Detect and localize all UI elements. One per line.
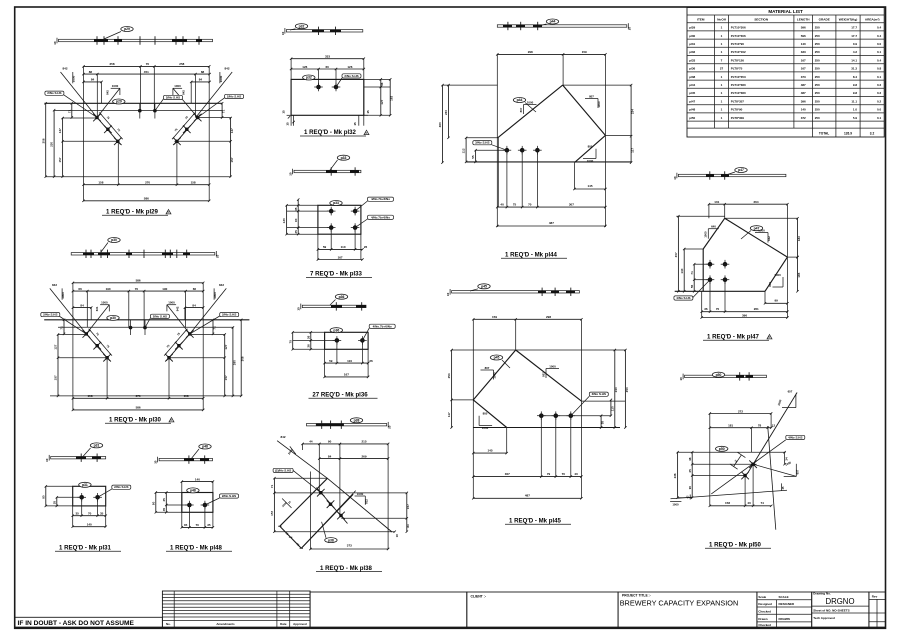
svg-text:1000: 1000 bbox=[587, 159, 594, 163]
svg-text:90: 90 bbox=[328, 440, 332, 444]
svg-text:1000: 1000 bbox=[482, 426, 489, 430]
svg-text:110: 110 bbox=[347, 359, 352, 363]
svg-text:MATERIAL LIST: MATERIAL LIST bbox=[768, 9, 803, 14]
svg-text:158: 158 bbox=[191, 181, 196, 185]
svg-text:1000: 1000 bbox=[493, 372, 497, 379]
svg-text:p31: p31 bbox=[82, 483, 88, 487]
svg-text:p50: p50 bbox=[719, 447, 725, 451]
svg-text:60: 60 bbox=[326, 65, 330, 69]
svg-text:BREWERY CAPACITY EXPANSION: BREWERY CAPACITY EXPANSION bbox=[620, 598, 739, 607]
svg-text:48: 48 bbox=[688, 457, 692, 461]
svg-text:117: 117 bbox=[631, 148, 635, 153]
svg-text:140: 140 bbox=[680, 268, 684, 273]
svg-text:2/No S.HS: 2/No S.HS bbox=[166, 95, 180, 99]
svg-text:842: 842 bbox=[62, 67, 67, 71]
svg-text:35: 35 bbox=[76, 512, 80, 516]
svg-text:250: 250 bbox=[815, 83, 820, 87]
svg-text:842: 842 bbox=[106, 90, 110, 95]
svg-text:10: 10 bbox=[288, 172, 292, 176]
svg-text:36: 36 bbox=[704, 307, 708, 311]
svg-text:75: 75 bbox=[513, 202, 517, 206]
svg-text:45: 45 bbox=[688, 469, 692, 473]
svg-text:657: 657 bbox=[788, 390, 793, 394]
svg-text:250: 250 bbox=[815, 75, 820, 79]
svg-text:p45: p45 bbox=[481, 285, 487, 289]
svg-text:167: 167 bbox=[338, 255, 343, 259]
svg-text:Drawn: Drawn bbox=[758, 617, 767, 621]
svg-text:TOTAL: TOTAL bbox=[819, 132, 829, 136]
svg-text:0.2: 0.2 bbox=[877, 91, 882, 95]
svg-text:110: 110 bbox=[341, 245, 346, 249]
svg-text:71: 71 bbox=[270, 485, 274, 489]
svg-text:640: 640 bbox=[711, 225, 716, 229]
svg-text:190: 190 bbox=[162, 287, 167, 291]
svg-text:1.0: 1.0 bbox=[853, 108, 858, 112]
svg-text:250: 250 bbox=[815, 42, 820, 46]
svg-text:45: 45 bbox=[162, 508, 166, 512]
svg-text:p48: p48 bbox=[202, 445, 208, 449]
svg-text:15: 15 bbox=[353, 122, 357, 126]
svg-text:181: 181 bbox=[728, 424, 733, 428]
svg-text:59: 59 bbox=[329, 359, 333, 363]
svg-text:pl44: pl44 bbox=[689, 83, 695, 87]
svg-text:p38: p38 bbox=[354, 419, 360, 423]
svg-text:40: 40 bbox=[747, 501, 751, 505]
svg-text:145: 145 bbox=[487, 448, 492, 452]
svg-text:90: 90 bbox=[294, 218, 298, 222]
svg-text:269: 269 bbox=[361, 454, 366, 458]
svg-text:306: 306 bbox=[241, 356, 245, 361]
svg-text:842: 842 bbox=[219, 283, 224, 287]
svg-text:250: 250 bbox=[815, 116, 820, 120]
svg-text:pl32: pl32 bbox=[689, 50, 695, 54]
svg-text:71: 71 bbox=[690, 271, 694, 275]
svg-text:36: 36 bbox=[306, 335, 310, 339]
svg-text:258: 258 bbox=[109, 62, 114, 66]
svg-text:360: 360 bbox=[438, 122, 442, 127]
svg-text:55: 55 bbox=[690, 285, 694, 289]
svg-text:1000: 1000 bbox=[219, 75, 223, 82]
svg-text:Sheet of NO. NO-SHEETS: Sheet of NO. NO-SHEETS bbox=[813, 609, 849, 613]
svg-text:PLT10*306: PLT10*306 bbox=[731, 26, 746, 30]
svg-text:250: 250 bbox=[815, 34, 820, 38]
svg-text:8.4: 8.4 bbox=[853, 75, 858, 79]
svg-text:167: 167 bbox=[344, 373, 349, 377]
svg-text:DESIGNED: DESIGNED bbox=[779, 602, 796, 606]
svg-text:158: 158 bbox=[87, 394, 92, 398]
svg-text:167: 167 bbox=[801, 58, 806, 62]
svg-text:17.7: 17.7 bbox=[851, 26, 857, 30]
svg-text:333: 333 bbox=[801, 50, 806, 54]
svg-text:1000: 1000 bbox=[357, 492, 364, 496]
svg-text:10: 10 bbox=[673, 176, 677, 180]
svg-text:Drawing No.: Drawing No. bbox=[813, 592, 831, 596]
svg-text:307: 307 bbox=[569, 202, 574, 206]
svg-text:307: 307 bbox=[674, 252, 678, 257]
svg-text:264: 264 bbox=[753, 200, 758, 204]
svg-text:112: 112 bbox=[462, 148, 466, 153]
svg-text:298: 298 bbox=[546, 315, 551, 319]
svg-text:842: 842 bbox=[176, 306, 180, 311]
svg-text:Scale: Scale bbox=[758, 595, 766, 599]
svg-text:240: 240 bbox=[614, 387, 618, 392]
svg-text:70: 70 bbox=[716, 307, 720, 311]
svg-text:1000: 1000 bbox=[168, 300, 175, 304]
svg-text:290: 290 bbox=[232, 360, 236, 365]
svg-text:4/No S.HS: 4/No S.HS bbox=[676, 296, 690, 300]
svg-text:4/No.7b+6/No: 4/No.7b+6/No bbox=[371, 197, 390, 201]
svg-text:55: 55 bbox=[471, 155, 475, 159]
svg-text:350: 350 bbox=[625, 387, 629, 392]
svg-text:250: 250 bbox=[815, 26, 820, 30]
svg-text:71: 71 bbox=[60, 326, 64, 330]
svg-text:WEIGHT(Kg): WEIGHT(Kg) bbox=[839, 18, 858, 22]
svg-text:p31: p31 bbox=[94, 444, 100, 448]
svg-text:27 REQ'D - Mk pl36: 27 REQ'D - Mk pl36 bbox=[312, 392, 368, 399]
svg-text:126.9: 126.9 bbox=[844, 132, 852, 136]
svg-text:190: 190 bbox=[106, 287, 111, 291]
svg-text:159: 159 bbox=[492, 315, 497, 319]
svg-text:PLT8*75: PLT8*75 bbox=[731, 67, 743, 71]
svg-text:pl50: pl50 bbox=[689, 116, 695, 120]
svg-text:250: 250 bbox=[815, 67, 820, 71]
svg-text:PROJECT TITLE :-: PROJECT TITLE :- bbox=[622, 594, 651, 598]
svg-text:1 REQ'D - Mk pl29: 1 REQ'D - Mk pl29 bbox=[106, 209, 159, 216]
svg-text:240: 240 bbox=[444, 110, 448, 115]
svg-text:p47: p47 bbox=[738, 168, 744, 172]
svg-text:15: 15 bbox=[282, 110, 286, 114]
svg-text:p45: p45 bbox=[494, 356, 500, 360]
svg-text:101: 101 bbox=[714, 200, 719, 204]
svg-text:0.9: 0.9 bbox=[853, 42, 858, 46]
svg-text:110: 110 bbox=[610, 406, 614, 411]
svg-text:1 REQ'D - Mk pl44: 1 REQ'D - Mk pl44 bbox=[505, 252, 558, 259]
svg-text:258: 258 bbox=[179, 62, 184, 66]
svg-text:487: 487 bbox=[549, 221, 554, 225]
svg-text:pl30: pl30 bbox=[689, 34, 695, 38]
svg-text:9.8: 9.8 bbox=[853, 83, 858, 87]
svg-text:35: 35 bbox=[207, 523, 211, 527]
svg-text:215: 215 bbox=[361, 440, 366, 444]
svg-text:pl48: pl48 bbox=[689, 108, 695, 112]
svg-text:40: 40 bbox=[500, 202, 504, 206]
svg-text:158: 158 bbox=[184, 394, 189, 398]
svg-text:83: 83 bbox=[406, 524, 410, 528]
svg-text:LENGTH: LENGTH bbox=[797, 18, 810, 22]
svg-text:236: 236 bbox=[673, 473, 677, 478]
svg-text:70: 70 bbox=[196, 523, 200, 527]
svg-text:298: 298 bbox=[528, 50, 533, 54]
svg-text:78: 78 bbox=[758, 424, 762, 428]
svg-text:167: 167 bbox=[801, 67, 806, 71]
svg-text:157: 157 bbox=[270, 510, 274, 515]
svg-text:71: 71 bbox=[212, 326, 216, 330]
svg-text:1000: 1000 bbox=[61, 292, 65, 299]
svg-text:35: 35 bbox=[294, 207, 298, 211]
svg-text:127: 127 bbox=[58, 128, 62, 133]
svg-text:12: 12 bbox=[772, 423, 776, 427]
svg-text:pl33: pl33 bbox=[689, 58, 695, 62]
svg-text:807: 807 bbox=[542, 372, 546, 377]
svg-text:p29: p29 bbox=[124, 27, 130, 31]
svg-text:70: 70 bbox=[528, 202, 532, 206]
svg-text:PLT8*126: PLT8*126 bbox=[731, 58, 745, 62]
svg-text:586: 586 bbox=[144, 197, 149, 201]
svg-text:IF IN DOUBT - ASK DO NOT ASSUM: IF IN DOUBT - ASK DO NOT ASSUME bbox=[18, 620, 135, 627]
svg-text:140: 140 bbox=[801, 108, 806, 112]
svg-text:127: 127 bbox=[54, 344, 58, 349]
svg-text:842: 842 bbox=[52, 283, 57, 287]
svg-text:10: 10 bbox=[45, 458, 49, 462]
svg-text:p38: p38 bbox=[328, 538, 334, 542]
svg-text:40: 40 bbox=[574, 472, 578, 476]
svg-text:10: 10 bbox=[297, 307, 301, 311]
svg-text:90: 90 bbox=[41, 495, 45, 499]
svg-text:157: 157 bbox=[54, 375, 58, 380]
svg-text:0.1: 0.1 bbox=[877, 50, 882, 54]
svg-text:p50: p50 bbox=[716, 373, 722, 377]
svg-text:1000: 1000 bbox=[527, 100, 534, 104]
svg-text:10: 10 bbox=[215, 254, 219, 258]
svg-text:306: 306 bbox=[41, 138, 45, 143]
svg-text:C: C bbox=[769, 335, 771, 339]
svg-text:SECTION: SECTION bbox=[754, 18, 769, 22]
svg-text:127: 127 bbox=[224, 344, 228, 349]
svg-text:DRGNO: DRGNO bbox=[825, 597, 854, 606]
svg-text:0.2: 0.2 bbox=[877, 83, 882, 87]
svg-text:26: 26 bbox=[369, 359, 373, 363]
svg-text:805: 805 bbox=[588, 145, 593, 149]
svg-text:807: 807 bbox=[485, 366, 490, 370]
svg-text:99: 99 bbox=[775, 299, 779, 303]
svg-text:2/No S.HS: 2/No S.HS bbox=[222, 313, 236, 317]
svg-text:p44: p44 bbox=[517, 98, 523, 102]
svg-text:0.4: 0.4 bbox=[877, 26, 882, 30]
svg-text:C: C bbox=[366, 131, 368, 135]
svg-text:p36: p36 bbox=[339, 295, 345, 299]
svg-text:90: 90 bbox=[151, 501, 155, 505]
svg-text:807: 807 bbox=[519, 107, 523, 112]
svg-text:Tech Approved: Tech Approved bbox=[813, 616, 835, 620]
svg-text:2/No S.HS: 2/No S.HS bbox=[153, 314, 167, 318]
svg-text:165: 165 bbox=[797, 272, 801, 277]
svg-text:1 REQ'D - Mk pl32: 1 REQ'D - Mk pl32 bbox=[304, 129, 357, 136]
svg-text:Date: Date bbox=[280, 622, 287, 626]
svg-text:805: 805 bbox=[483, 412, 488, 416]
svg-text:0.4: 0.4 bbox=[877, 34, 882, 38]
svg-text:487: 487 bbox=[525, 494, 530, 498]
svg-text:261: 261 bbox=[754, 307, 759, 311]
svg-text:487: 487 bbox=[801, 91, 806, 95]
svg-text:396: 396 bbox=[801, 99, 806, 103]
svg-text:pl29: pl29 bbox=[689, 26, 695, 30]
svg-text:2/No S.HS: 2/No S.HS bbox=[43, 313, 57, 317]
svg-text:CLIENT :-: CLIENT :- bbox=[471, 594, 486, 598]
svg-text:ITEM: ITEM bbox=[697, 18, 705, 22]
svg-text:842: 842 bbox=[224, 67, 229, 71]
svg-text:PLT10*306: PLT10*306 bbox=[731, 34, 746, 38]
svg-text:pl31: pl31 bbox=[689, 42, 695, 46]
svg-text:2/No S.HS: 2/No S.HS bbox=[47, 91, 61, 95]
svg-text:C: C bbox=[168, 210, 170, 214]
svg-text:333: 333 bbox=[325, 55, 330, 59]
svg-text:PLT10*90: PLT10*90 bbox=[731, 42, 745, 46]
svg-text:17.7: 17.7 bbox=[851, 34, 857, 38]
svg-text:(2)/No S.HS: (2)/No S.HS bbox=[275, 468, 291, 472]
svg-text:183: 183 bbox=[797, 236, 801, 241]
svg-text:No.: No. bbox=[166, 622, 171, 626]
svg-text:84: 84 bbox=[80, 303, 84, 307]
svg-text:487: 487 bbox=[801, 83, 806, 87]
svg-text:Designed: Designed bbox=[758, 602, 772, 606]
svg-text:Approved: Approved bbox=[293, 622, 307, 626]
svg-text:0.4: 0.4 bbox=[877, 58, 882, 62]
svg-text:157: 157 bbox=[224, 375, 228, 380]
svg-text:0.1: 0.1 bbox=[877, 75, 882, 79]
svg-text:14.1: 14.1 bbox=[851, 58, 857, 62]
svg-text:0.0: 0.0 bbox=[877, 42, 882, 46]
svg-text:1000: 1000 bbox=[672, 503, 679, 507]
svg-text:157: 157 bbox=[406, 504, 410, 509]
svg-text:140: 140 bbox=[801, 42, 806, 46]
svg-text:3/No S.HS: 3/No S.HS bbox=[475, 141, 489, 145]
svg-text:1 REQ'D - Mk pl30: 1 REQ'D - Mk pl30 bbox=[109, 417, 162, 424]
svg-text:74: 74 bbox=[761, 501, 765, 505]
svg-text:4.2: 4.2 bbox=[853, 50, 858, 54]
svg-text:2/No S.HS: 2/No S.HS bbox=[222, 494, 236, 498]
svg-text:84: 84 bbox=[199, 78, 203, 82]
svg-text:45: 45 bbox=[162, 498, 166, 502]
svg-text:p36: p36 bbox=[333, 328, 339, 332]
svg-text:79: 79 bbox=[547, 472, 551, 476]
svg-text:250: 250 bbox=[815, 108, 820, 112]
svg-text:35: 35 bbox=[52, 501, 56, 505]
svg-text:0.2: 0.2 bbox=[877, 99, 882, 103]
svg-text:0.0: 0.0 bbox=[877, 108, 882, 112]
svg-text:75: 75 bbox=[288, 340, 292, 344]
svg-text:59: 59 bbox=[323, 245, 327, 249]
svg-text:Checked: Checked bbox=[758, 623, 771, 627]
svg-text:84: 84 bbox=[192, 303, 196, 307]
svg-text:842: 842 bbox=[280, 435, 285, 439]
svg-text:3.2: 3.2 bbox=[870, 132, 875, 136]
svg-text:66: 66 bbox=[193, 287, 197, 291]
svg-text:250: 250 bbox=[815, 99, 820, 103]
svg-text:15: 15 bbox=[366, 110, 370, 114]
svg-text:70: 70 bbox=[135, 287, 139, 291]
svg-text:0.1: 0.1 bbox=[877, 116, 882, 120]
svg-text:p48: p48 bbox=[190, 489, 196, 493]
svg-text:p33: p33 bbox=[333, 201, 339, 205]
svg-text:2/No S.HS: 2/No S.HS bbox=[344, 74, 358, 78]
svg-text:3/No S.HS: 3/No S.HS bbox=[592, 392, 606, 396]
svg-text:pl38: pl38 bbox=[689, 75, 695, 79]
svg-text:1000: 1000 bbox=[112, 84, 119, 88]
svg-text:807: 807 bbox=[589, 94, 594, 98]
svg-text:596: 596 bbox=[801, 34, 806, 38]
svg-text:84: 84 bbox=[91, 78, 95, 82]
svg-text:PLT10*380: PLT10*380 bbox=[731, 91, 746, 95]
svg-text:70: 70 bbox=[146, 62, 150, 66]
svg-text:1000: 1000 bbox=[213, 292, 217, 299]
svg-text:31.3: 31.3 bbox=[851, 67, 857, 71]
svg-text:1 REQ'D - Mk pl31: 1 REQ'D - Mk pl31 bbox=[59, 545, 112, 552]
svg-text:Rev: Rev bbox=[872, 595, 878, 599]
svg-text:163: 163 bbox=[390, 95, 394, 100]
svg-text:36: 36 bbox=[306, 344, 310, 348]
svg-text:PLT8*357: PLT8*357 bbox=[731, 99, 745, 103]
svg-text:84: 84 bbox=[328, 454, 332, 458]
svg-text:158: 158 bbox=[725, 501, 730, 505]
svg-text:p32: p32 bbox=[306, 76, 312, 80]
svg-text:Amendments: Amendments bbox=[216, 622, 235, 626]
svg-text:812: 812 bbox=[365, 499, 369, 504]
svg-text:234: 234 bbox=[631, 109, 635, 114]
svg-text:pl47: pl47 bbox=[689, 99, 695, 103]
svg-text:7 REQ'D - Mk pl33: 7 REQ'D - Mk pl33 bbox=[310, 271, 363, 278]
svg-text:270: 270 bbox=[136, 394, 141, 398]
svg-text:p29: p29 bbox=[116, 100, 122, 104]
svg-text:1 REQ'D - Mk pl47: 1 REQ'D - Mk pl47 bbox=[707, 334, 760, 341]
svg-text:1000: 1000 bbox=[174, 84, 181, 88]
svg-text:1 REQ'D - Mk pl45: 1 REQ'D - Mk pl45 bbox=[509, 518, 562, 525]
svg-text:140: 140 bbox=[195, 477, 200, 481]
svg-text:10: 10 bbox=[53, 41, 57, 45]
svg-text:1 REQ'D - Mk pl50: 1 REQ'D - Mk pl50 bbox=[709, 542, 762, 549]
svg-text:35: 35 bbox=[100, 512, 104, 516]
svg-text:250: 250 bbox=[815, 91, 820, 95]
svg-text:2/No S.HS: 2/No S.HS bbox=[114, 485, 128, 489]
svg-text:PLT8*309: PLT8*309 bbox=[731, 116, 745, 120]
svg-text:Checked: Checked bbox=[758, 610, 771, 614]
svg-text:586: 586 bbox=[136, 279, 141, 283]
svg-text:35: 35 bbox=[294, 230, 298, 234]
svg-text:p30: p30 bbox=[110, 316, 116, 320]
svg-text:643: 643 bbox=[768, 282, 772, 287]
svg-text:5.9: 5.9 bbox=[853, 116, 858, 120]
svg-text:250: 250 bbox=[815, 50, 820, 54]
svg-text:DRAWN: DRAWN bbox=[779, 617, 790, 621]
svg-text:pl36: pl36 bbox=[689, 67, 695, 71]
svg-text:4/No.7b+6/No: 4/No.7b+6/No bbox=[373, 324, 392, 328]
svg-text:4/No.7b+6/No: 4/No.7b+6/No bbox=[371, 215, 390, 219]
svg-text:18: 18 bbox=[395, 534, 399, 537]
svg-text:4/No S.HS: 4/No S.HS bbox=[788, 435, 802, 439]
svg-text:10: 10 bbox=[387, 425, 391, 429]
svg-text:1000: 1000 bbox=[597, 101, 601, 108]
svg-text:71: 71 bbox=[222, 109, 226, 113]
svg-text:10: 10 bbox=[446, 292, 450, 296]
svg-text:254: 254 bbox=[447, 373, 451, 378]
svg-text:1000: 1000 bbox=[704, 231, 708, 238]
svg-text:2/No S.HS: 2/No S.HS bbox=[227, 94, 241, 98]
svg-text:642: 642 bbox=[767, 236, 771, 241]
svg-text:71: 71 bbox=[67, 109, 71, 113]
svg-text:396: 396 bbox=[742, 313, 747, 317]
svg-text:pl45: pl45 bbox=[689, 91, 695, 95]
svg-text:10: 10 bbox=[281, 31, 285, 35]
svg-text:AREA(m²): AREA(m²) bbox=[865, 18, 880, 22]
svg-text:1000: 1000 bbox=[549, 364, 556, 368]
svg-text:127: 127 bbox=[230, 128, 234, 133]
svg-text:657: 657 bbox=[795, 469, 799, 474]
svg-text:70: 70 bbox=[88, 512, 92, 516]
svg-text:127: 127 bbox=[380, 99, 384, 104]
svg-text:15: 15 bbox=[286, 122, 290, 126]
svg-text:SCALE: SCALE bbox=[779, 595, 789, 599]
svg-text:p32: p32 bbox=[299, 24, 305, 28]
svg-text:36: 36 bbox=[380, 82, 384, 86]
